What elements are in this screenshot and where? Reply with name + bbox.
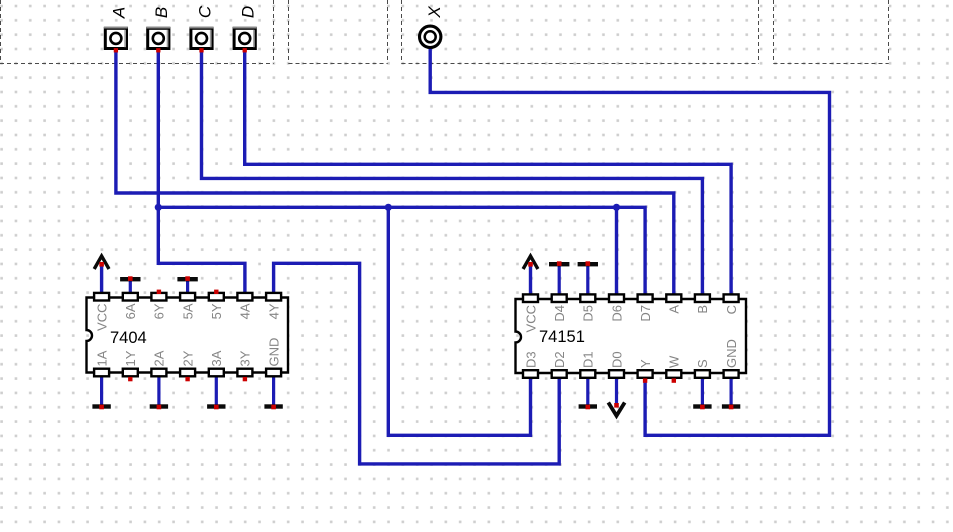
U2 top pin B: [695, 294, 710, 313]
U2 top pin A: [666, 294, 681, 313]
svg-text:S: S: [695, 359, 710, 368]
svg-text:4A: 4A: [238, 303, 253, 319]
junction node B at x=388.3: [385, 204, 392, 211]
svg-text:Y: Y: [638, 359, 653, 368]
U2 top pin D6: [609, 294, 624, 321]
IC U2 74151 body: [516, 299, 747, 373]
wire node B bus to U2 pin D7: [158, 207, 645, 296]
svg-text:VCC: VCC: [94, 304, 109, 331]
svg-text:D2: D2: [552, 351, 567, 368]
svg-text:4Y: 4Y: [266, 303, 281, 319]
svg-text:D3: D3: [523, 351, 538, 368]
+V tie bar at U1 pin 6A: [120, 276, 140, 293]
svg-text:2Y: 2Y: [180, 350, 195, 366]
wire button D to U2 pin C: [245, 50, 731, 296]
U1 bottom pin 3Y: [237, 350, 252, 381]
ground bar at U1 pin 3A: [207, 377, 225, 409]
svg-text:B: B: [152, 7, 171, 18]
U2 bottom pin S: [695, 359, 710, 378]
junction node B at x=616.5: [613, 204, 620, 211]
U1 top pin 5Y: [209, 290, 224, 320]
ground bar at U2 pin S: [693, 379, 711, 410]
U1 top pin 6A: [123, 293, 138, 320]
wire U1 pin 4Y to U2 pin D2: [274, 263, 560, 464]
input connector A: [104, 7, 129, 53]
U2 bottom pin D1: [580, 351, 595, 377]
svg-text:D1: D1: [581, 351, 596, 368]
U1 bottom pin 1A: [94, 350, 109, 376]
svg-text:VCC: VCC: [523, 305, 538, 332]
U2 bottom pin D2: [552, 351, 567, 377]
U1 top pin 4Y: [266, 293, 281, 320]
svg-text:1Y: 1Y: [123, 350, 138, 366]
U2 bottom pin D3: [523, 351, 538, 377]
+V tie bar at U2 pin D4: [549, 261, 569, 294]
power +V arrow at U1 VCC: [94, 256, 109, 293]
svg-text:GND: GND: [724, 339, 739, 368]
U2 bottom pin W: [666, 355, 681, 383]
wire node B branch to U2 pin D6: [615, 207, 618, 296]
svg-text:D7: D7: [638, 305, 653, 322]
U1 top pin VCC: [94, 293, 109, 331]
svg-text:D5: D5: [581, 305, 596, 322]
svg-text:6A: 6A: [123, 303, 138, 319]
ground bar at U1 pin 1A: [92, 377, 110, 409]
svg-text:74151: 74151: [539, 328, 585, 346]
ground bar at U1 pin GND: [264, 377, 282, 409]
svg-text:D6: D6: [609, 305, 624, 322]
U2 bottom pin GND: [724, 339, 739, 378]
wire node B branch to U2 pin D3: [388, 207, 530, 435]
svg-text:B: B: [695, 305, 710, 314]
svg-text:7404: 7404: [110, 329, 147, 347]
ground arrow at U2 pin D0: [608, 379, 624, 416]
U1 bottom pin GND: [266, 338, 281, 377]
output probe X: [420, 6, 445, 48]
svg-text:W: W: [667, 355, 682, 368]
svg-text:2A: 2A: [152, 350, 167, 366]
wire probe X to U2 pin Y: [430, 49, 829, 436]
ground bar at U2 pin GND: [722, 379, 740, 410]
wire button B to U1 pin 4A: [158, 50, 245, 295]
svg-text:D: D: [239, 6, 258, 18]
svg-text:C: C: [195, 5, 214, 18]
U2 top pin C: [724, 294, 739, 314]
U1 bottom pin 1Y: [123, 350, 138, 381]
svg-text:1A: 1A: [94, 350, 109, 366]
svg-text:D0: D0: [609, 351, 624, 368]
ground bar at U2 pin D1: [579, 379, 597, 410]
svg-text:C: C: [724, 305, 739, 314]
svg-text:3A: 3A: [209, 350, 224, 366]
U1 bottom pin 2A: [151, 350, 166, 376]
U2 top pin D5: [580, 294, 595, 321]
IC U1 7404 body: [87, 298, 289, 373]
wire button C to U2 pin B: [202, 50, 703, 296]
+V tie bar at U1 pin 5A: [177, 276, 197, 293]
U2 top pin VCC: [523, 294, 538, 332]
svg-text:D4: D4: [552, 305, 567, 322]
input connector D: [233, 6, 258, 53]
U1 bottom pin 3A: [209, 350, 224, 376]
svg-text:A: A: [667, 305, 682, 314]
power +V arrow at U2 VCC: [523, 256, 538, 295]
U1 bottom pin 2Y: [180, 350, 195, 381]
U2 bottom pin D0: [609, 351, 624, 377]
svg-text:GND: GND: [266, 338, 281, 367]
U1 top pin 5A: [180, 293, 195, 320]
U2 top pin D7: [638, 294, 653, 321]
input connector B: [146, 7, 171, 53]
U2 bottom pin Y: [638, 359, 653, 383]
svg-text:6Y: 6Y: [152, 303, 167, 319]
input connector C: [190, 5, 215, 52]
wire button A to U2 pin A: [116, 50, 674, 296]
svg-text:3Y: 3Y: [238, 350, 253, 366]
svg-text:A: A: [110, 7, 129, 19]
U1 top pin 4A: [237, 293, 252, 320]
U1 top pin 6Y: [151, 290, 166, 320]
junction node B at x=158.3: [155, 204, 162, 211]
U2 top pin D4: [552, 294, 567, 321]
+V tie bar at U2 pin D5: [578, 261, 598, 294]
svg-text:5A: 5A: [180, 303, 195, 319]
svg-text:X: X: [425, 6, 444, 19]
svg-text:5Y: 5Y: [209, 303, 224, 319]
ground bar at U1 pin 2A: [150, 377, 168, 409]
